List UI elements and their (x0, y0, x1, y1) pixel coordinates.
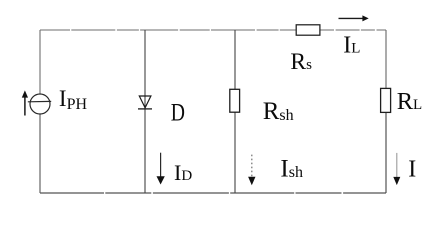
wire right branch lower (385, 112, 387, 193)
resistor Rs (296, 25, 320, 35)
arrow IL current (339, 17, 364, 19)
current source arrow (24, 97, 26, 116)
wire left branch lower (39, 114, 41, 193)
wire diode branch (144, 30, 146, 193)
wire top rail left of Rs (40, 29, 296, 31)
resistor Rsh (230, 89, 240, 112)
wire left branch upper (39, 30, 41, 94)
wire right branch upper (385, 30, 387, 88)
svg-text:I: I (408, 156, 416, 182)
arrow Ish current (251, 155, 253, 177)
current source IPH circle (30, 94, 50, 114)
arrow I current (396, 153, 398, 177)
resistor RL (381, 88, 391, 112)
diode D (139, 96, 151, 108)
wire bottom rail (40, 192, 386, 194)
svg-text:D: D (171, 100, 185, 127)
wire top rail right of Rs (320, 29, 386, 31)
arrow ID current (160, 153, 162, 177)
wire Rsh branch upper (234, 30, 236, 89)
wire Rsh branch lower (234, 112, 236, 193)
current source bar (28, 100, 51, 102)
